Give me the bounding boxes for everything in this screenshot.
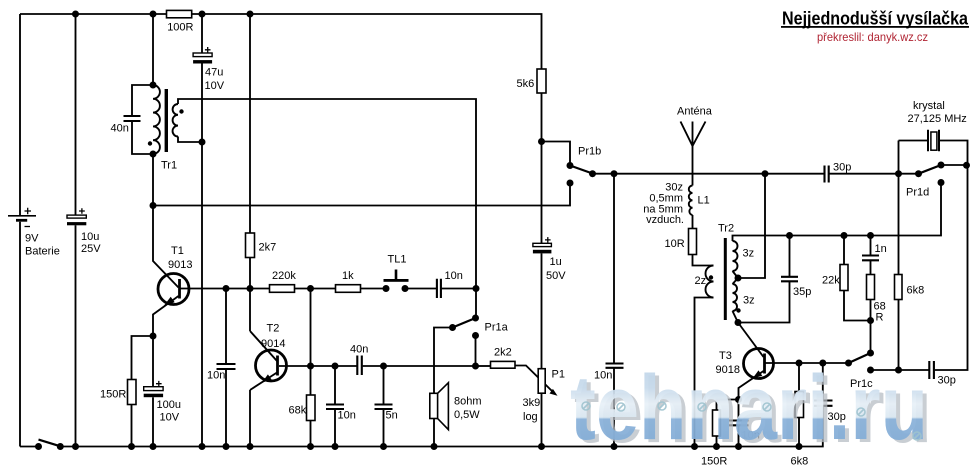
node top rail / 2k7 bbox=[247, 11, 254, 18]
switch Pr1a blade bbox=[453, 318, 476, 328]
wire Tr2 top winding to right column bbox=[733, 183, 942, 242]
svg-text:L1: L1 bbox=[698, 195, 710, 207]
Tr2 lower 3z phasing dot bbox=[736, 308, 740, 312]
transistor T2 base bar bbox=[276, 356, 279, 376]
svg-text:2k7: 2k7 bbox=[259, 242, 277, 254]
wire x153 Tr1 to T1 base bbox=[153, 154, 179, 288]
capacitor 47u solid plate bbox=[193, 60, 212, 63]
svg-text:Tr1: Tr1 bbox=[161, 160, 177, 172]
node TL1 right contact bbox=[402, 285, 409, 292]
battery 9V long thin plate bbox=[8, 215, 36, 217]
node antenna line / 10n bbox=[611, 170, 618, 177]
transistor T1 emitter arrow bbox=[164, 297, 175, 306]
node T3 emitter junction bbox=[735, 396, 742, 403]
svg-text:47u: 47u bbox=[205, 67, 223, 79]
capacitor 47u hollow plate bbox=[193, 53, 212, 57]
node 5k6 / Pr1b bbox=[538, 138, 545, 145]
wire T3 base diagonal bbox=[738, 323, 764, 358]
node ground / 2z bbox=[691, 443, 698, 450]
svg-text:T2: T2 bbox=[267, 323, 280, 335]
svg-text:30z: 30z bbox=[665, 182, 683, 194]
transistor T3 base bar bbox=[763, 354, 766, 374]
node ground / 5n bbox=[380, 443, 387, 450]
wire T2 emitter diagonal bbox=[250, 373, 277, 391]
plus sign 47u bbox=[205, 47, 211, 53]
node Tr2 bottom / T3 base bbox=[735, 319, 742, 326]
transistor T3 emitter arrow bbox=[753, 370, 763, 378]
resistor 150R bbox=[128, 380, 137, 405]
svg-text:2z: 2z bbox=[695, 275, 707, 287]
watermark slashed circle marks bbox=[582, 402, 921, 440]
node T3 collector / 30p bbox=[819, 360, 826, 367]
capacitor 40n series bbox=[357, 356, 362, 376]
node ground / 10n x226 bbox=[223, 443, 230, 450]
Tr1 primary phasing dot bbox=[148, 141, 152, 145]
svg-text:10n: 10n bbox=[207, 370, 225, 382]
wire T2 emitter to ground bbox=[249, 390, 251, 447]
wire x153 vertical top bbox=[152, 14, 154, 85]
crystal 27,125 MHz body bbox=[931, 132, 937, 150]
svg-text:překreslil: danyk.wz.cz: překreslil: danyk.wz.cz bbox=[817, 30, 928, 44]
svg-text:5k6: 5k6 bbox=[517, 78, 535, 90]
node Pr1c lower contact bbox=[867, 367, 874, 374]
resistor 2k2 bbox=[491, 361, 516, 368]
wire P1 wiper diagonal bbox=[515, 366, 554, 393]
node Pr1b lower contact bbox=[567, 180, 574, 187]
node T1 collector / 2k7 bbox=[247, 285, 254, 292]
capacitor 30p top bbox=[825, 166, 829, 183]
capacitor 40n Tr1 bbox=[124, 116, 141, 121]
node ground / T2 emitter bbox=[247, 443, 254, 450]
resistor 68R bbox=[867, 275, 875, 300]
capacitor 100u hollow plate bbox=[144, 387, 163, 391]
svg-text:100u: 100u bbox=[157, 399, 181, 411]
capacitor 10u solid plate bbox=[67, 222, 86, 225]
transistor T2 emitter arrow bbox=[262, 374, 272, 382]
resistor 5k6 bbox=[537, 69, 546, 93]
resistor 1k bbox=[336, 285, 361, 293]
node ground / 10u bbox=[72, 443, 79, 450]
capacitor 30p x823 bbox=[814, 401, 833, 406]
capacitor 1u hollow plate bbox=[533, 243, 552, 246]
transistor T1 circle bbox=[158, 274, 189, 305]
svg-text:10V: 10V bbox=[160, 411, 180, 423]
svg-text:3z: 3z bbox=[743, 248, 755, 260]
wire Tr1 secondary top long feedback bbox=[178, 99, 476, 318]
transformer Tr1 core bbox=[165, 89, 168, 152]
wire L1 to 10R bbox=[692, 215, 694, 229]
transistor T3 circle bbox=[744, 349, 774, 379]
node antenna line / Tr2 tap bbox=[762, 170, 769, 177]
node Pr1c pivot bbox=[845, 360, 852, 367]
svg-text:Baterie: Baterie bbox=[25, 246, 60, 258]
node T2 collector / 5n bbox=[380, 363, 387, 370]
wire y205 horizontal to Pr1b bbox=[153, 183, 570, 206]
transistor T2 circle bbox=[256, 350, 287, 381]
node Pr1c / 6k8 upper bbox=[895, 367, 902, 374]
antenna mast bbox=[681, 122, 706, 147]
svg-text:10n: 10n bbox=[338, 410, 356, 422]
node 220k / 68k bbox=[307, 285, 314, 292]
svg-text:TL1: TL1 bbox=[388, 254, 407, 266]
wire Pr1c to 68R junction bbox=[870, 321, 872, 354]
svg-text:1n: 1n bbox=[875, 243, 887, 255]
node Pr1a lower contact bbox=[472, 332, 479, 339]
wire T3 emitter to 150R bbox=[717, 400, 739, 447]
wire T1 emitter bbox=[153, 296, 179, 336]
svg-text:Pr1b: Pr1b bbox=[578, 146, 601, 158]
wire 40n loop bbox=[132, 85, 153, 154]
crystal 27,125 MHz plates bbox=[928, 130, 939, 151]
node Tr2 center tap bbox=[735, 275, 742, 282]
wire Pr1b feed bbox=[542, 142, 571, 166]
transformer Tr1 primary winding bbox=[153, 85, 160, 154]
COMP_START bbox=[128, 10, 903, 436]
node TL1 left contact bbox=[383, 285, 390, 292]
svg-text:25V: 25V bbox=[81, 243, 101, 255]
node ground / 150R T3 bbox=[713, 443, 720, 450]
node Pr1c blade tip bbox=[867, 350, 874, 357]
wire Pr1d blade output bbox=[941, 164, 967, 166]
wire 5k6 to 1u to P1 vertical bbox=[541, 93, 543, 447]
node T1 collector / 10n bbox=[223, 285, 230, 292]
resistor 6k8 lower bbox=[795, 392, 804, 418]
svg-text:22k: 22k bbox=[822, 275, 840, 287]
node Pr1d blade tip bbox=[938, 162, 945, 169]
node power switch right bbox=[57, 443, 64, 450]
svg-text:220k: 220k bbox=[272, 270, 296, 282]
wire Tr1 secondary bottom to 47u branch bbox=[178, 137, 202, 143]
transformer Tr1 secondary winding bbox=[173, 104, 178, 137]
wire Pr1a lower contact bbox=[475, 336, 477, 367]
svg-text:1u: 1u bbox=[550, 256, 562, 268]
node T3 collector / 6k8 bbox=[796, 360, 803, 367]
node power switch left bbox=[35, 443, 42, 450]
svg-text:10R: 10R bbox=[665, 238, 685, 250]
wire 2z bottom to ground bbox=[695, 298, 714, 447]
svg-text:27,125 MHz: 27,125 MHz bbox=[908, 113, 967, 125]
wire 10u branch bbox=[75, 14, 77, 447]
wire speaker branch bbox=[434, 328, 453, 447]
transistor T1 base bar bbox=[178, 279, 181, 299]
node ground / 6k8 bbox=[796, 443, 803, 450]
wire 68k branch bbox=[310, 289, 312, 447]
node antenna line / crystal branch bbox=[895, 170, 902, 177]
svg-text:3z: 3z bbox=[743, 295, 755, 307]
switch Pr1c blade bbox=[849, 353, 871, 363]
svg-text:50V: 50V bbox=[546, 270, 566, 282]
potentiometer P1 wiper arrowhead bbox=[550, 389, 558, 396]
plus sign 100u bbox=[156, 381, 162, 387]
capacitor 100u solid plate bbox=[144, 394, 163, 398]
node ground / 47u branch bbox=[199, 443, 206, 450]
resistor 10R bbox=[689, 229, 697, 255]
node ground / 150R bbox=[128, 443, 135, 450]
svg-text:P1: P1 bbox=[552, 369, 565, 381]
potentiometer P1 3k9 body bbox=[538, 369, 545, 394]
wire 10R to 2z bbox=[693, 255, 714, 266]
node ground / 10n x614 bbox=[611, 443, 618, 450]
capacitor 10u hollow plate bbox=[67, 215, 86, 218]
wire bottom ground rail bbox=[20, 407, 823, 447]
node ground / 10n x335 bbox=[332, 443, 339, 450]
wire left battery branch bbox=[19, 14, 21, 447]
capacitor 10n x335 bbox=[326, 405, 344, 410]
wire 47u branch vertical bbox=[201, 14, 203, 447]
resistor 100R bbox=[167, 10, 192, 17]
svg-text:10u: 10u bbox=[81, 231, 99, 243]
svg-text:Anténa: Anténa bbox=[677, 106, 713, 118]
svg-text:tehnari.ru: tehnari.ru bbox=[570, 357, 928, 459]
node top rail / Tr1 bbox=[150, 11, 157, 18]
node ground / 68k bbox=[307, 443, 314, 450]
svg-text:R: R bbox=[876, 312, 884, 324]
node Tr1 primary top bbox=[150, 82, 157, 89]
resistor 68k bbox=[307, 395, 316, 421]
node top wire / 35p bbox=[786, 232, 793, 239]
node Pr1b top contact bbox=[567, 162, 574, 169]
wire 5n branch bbox=[383, 366, 385, 447]
switch Pr1d blade bbox=[919, 165, 942, 174]
speaker 8ohm cone bbox=[438, 383, 449, 430]
Tr1 secondary phasing dot bbox=[179, 109, 183, 113]
svg-text:35p: 35p bbox=[793, 286, 811, 298]
wire T1 collector line bbox=[181, 288, 477, 290]
resistor 2k7 bbox=[246, 233, 255, 258]
wire 30p x823 branch bbox=[822, 363, 824, 400]
svg-text:9013: 9013 bbox=[168, 259, 192, 271]
svg-text:30p: 30p bbox=[938, 375, 956, 387]
svg-text:10n: 10n bbox=[445, 270, 463, 282]
svg-text:40n: 40n bbox=[111, 123, 129, 135]
wire 10n x614 branch bbox=[613, 174, 615, 447]
transformer Tr2 primary 2z winding bbox=[706, 266, 714, 298]
wire Tr2 winding leads bbox=[733, 271, 739, 323]
node top wire / 1n bbox=[867, 232, 874, 239]
wire 100u branch bbox=[152, 336, 154, 447]
capacitor 10n series T1 line bbox=[437, 279, 441, 298]
node ground / P1 bbox=[538, 443, 545, 450]
node ground / speaker bbox=[431, 443, 438, 450]
wire 10n T3 branch bbox=[738, 400, 740, 447]
resistor 22k bbox=[840, 265, 848, 291]
svg-text:6k8: 6k8 bbox=[907, 285, 925, 297]
capacitor 10n T3 bbox=[729, 421, 749, 426]
svg-text:100R: 100R bbox=[167, 22, 193, 34]
resistor 6k8 upper bbox=[895, 275, 903, 300]
capacitor 5n bbox=[375, 405, 393, 410]
svg-text:68k: 68k bbox=[289, 405, 307, 417]
svg-text:Pr1d: Pr1d bbox=[906, 187, 929, 199]
node y205 branch bbox=[150, 202, 157, 209]
svg-text:vzduch.: vzduch. bbox=[646, 214, 684, 226]
plus sign battery bbox=[25, 208, 32, 214]
svg-text:5n: 5n bbox=[386, 410, 398, 422]
transformer Tr2 upper 3z winding bbox=[733, 241, 738, 271]
svg-text:9014: 9014 bbox=[261, 338, 285, 350]
svg-text:Nejjednodušší vysílačka: Nejjednodušší vysílačka bbox=[782, 8, 969, 29]
svg-text:krystal: krystal bbox=[913, 100, 945, 112]
svg-text:3k9: 3k9 bbox=[523, 397, 541, 409]
capacitor 1n bbox=[862, 256, 879, 261]
wire y366 to 2k2 bbox=[476, 365, 491, 367]
node top wire / 22k bbox=[841, 232, 848, 239]
wire 1n 68R branch bbox=[870, 236, 872, 321]
wire 2k7 branch vertical bbox=[249, 14, 251, 331]
node top rail / 10u bbox=[72, 11, 79, 18]
wire Pr1b output antenna line bbox=[593, 173, 919, 175]
svg-text:9V: 9V bbox=[25, 232, 39, 244]
node y366 / P1 feed bbox=[472, 363, 479, 370]
wire T3 emitter bbox=[739, 371, 764, 400]
node top rail / 47u bbox=[199, 11, 206, 18]
capacitor 30p right bbox=[929, 361, 934, 379]
svg-text:10V: 10V bbox=[205, 80, 225, 92]
wire 10n x226 branch bbox=[225, 289, 227, 447]
svg-text:Tr2: Tr2 bbox=[718, 223, 734, 235]
inductor L1 winding bbox=[689, 186, 693, 215]
svg-text:Pr1a: Pr1a bbox=[485, 322, 509, 334]
node Pr1d left contact bbox=[915, 170, 922, 177]
minus sign battery bbox=[25, 226, 31, 228]
svg-text:150R: 150R bbox=[100, 389, 126, 401]
node ground / 10n T3 bbox=[735, 443, 742, 450]
wire Pr1c output to 30p right bbox=[871, 141, 968, 371]
node 22k 68R junction R bbox=[867, 317, 874, 324]
svg-text:0,5W: 0,5W bbox=[454, 409, 480, 421]
resistor 150R T3 bbox=[713, 410, 721, 436]
capacitor 1u solid plate bbox=[533, 250, 552, 254]
node Pr1d right junction bbox=[963, 162, 970, 169]
svg-text:log: log bbox=[523, 411, 538, 423]
svg-text:2k2: 2k2 bbox=[494, 347, 512, 359]
capacitor 10n x614 bbox=[606, 364, 624, 368]
wire T3 collector line bbox=[766, 362, 849, 364]
transformer Tr2 core bbox=[724, 238, 727, 320]
node 10n / Pr1a top bbox=[473, 285, 480, 292]
node T2 collector / 10n bbox=[332, 363, 339, 370]
plus sign 1u bbox=[545, 237, 551, 243]
wire 6k8 lower branch bbox=[798, 363, 800, 447]
wire crystal left to 6k8 upper bbox=[899, 141, 929, 371]
speaker 8ohm body bbox=[430, 393, 438, 418]
node Pr1a pivot bbox=[472, 315, 479, 322]
node ground / 100u bbox=[150, 443, 157, 450]
pushbutton TL1 stem bbox=[395, 270, 398, 280]
power switch blade bbox=[39, 440, 61, 447]
svg-text:T1: T1 bbox=[171, 245, 184, 257]
node Pr1b blade tip bbox=[589, 170, 596, 177]
svg-text:30p: 30p bbox=[833, 162, 851, 174]
Tr2 2z phasing dot bbox=[709, 275, 713, 279]
capacitor 35p bbox=[781, 277, 798, 282]
resistor 220k bbox=[270, 285, 295, 293]
wire T2 base diagonal bbox=[250, 331, 277, 361]
transformer Tr2 lower 3z winding bbox=[733, 284, 738, 311]
node Tr1 secondary bottom / 47u bbox=[199, 139, 206, 146]
pushbutton TL1 bar bbox=[384, 279, 409, 282]
battery 9V short thick plate bbox=[16, 219, 27, 222]
node T2 collector / 68k bbox=[307, 363, 314, 370]
svg-text:8ohm: 8ohm bbox=[454, 396, 482, 408]
svg-text:1k: 1k bbox=[342, 270, 354, 282]
node Tr1 primary bottom bbox=[150, 151, 157, 158]
node Pr1d lower contact bbox=[938, 179, 945, 186]
wire top supply rail bbox=[20, 14, 542, 69]
wire antenna line to Tr2 center tap bbox=[738, 174, 765, 278]
switch Pr1b blade bbox=[570, 166, 593, 174]
node Pr1a left contact bbox=[449, 324, 456, 331]
wire 10n x335 branch bbox=[334, 366, 336, 447]
svg-text:40n: 40n bbox=[350, 343, 368, 355]
wire T2 collector line bbox=[279, 365, 476, 367]
node T1 emitter junction bbox=[150, 333, 157, 340]
wire T1 emitter to 150R bbox=[132, 336, 154, 447]
wire 22k branch bbox=[844, 236, 871, 321]
plus sign 10u bbox=[79, 208, 85, 214]
capacitor 10n x226 bbox=[217, 364, 236, 369]
wire Tr2 bottom to 35p bbox=[738, 236, 790, 323]
wire antenna to L1 bbox=[692, 146, 694, 186]
